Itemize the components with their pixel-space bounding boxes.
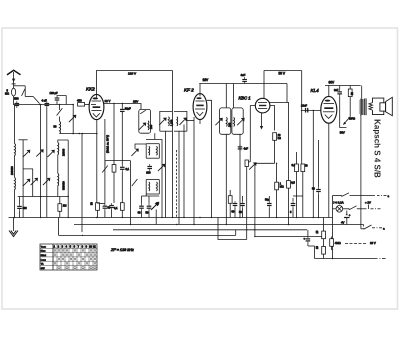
svg-text:50V: 50V bbox=[340, 131, 345, 135]
electrolytic + C bbox=[304, 230, 311, 246]
svg-text:Lang: Lang bbox=[41, 259, 47, 261]
resistor 15 upper bbox=[316, 218, 325, 239]
wire 18V rail drop x=287 bbox=[286, 84, 288, 103]
wire 120V drop x=172.5 bbox=[172, 71, 174, 218]
capacitor 0,1 screen bbox=[109, 203, 118, 217]
wire KF2 anode to 18V rail bbox=[199, 84, 201, 94]
resistor 50 tone bbox=[348, 86, 353, 115]
volume potentiometer bbox=[245, 160, 257, 240]
capacitor 100 osc bbox=[146, 164, 152, 174]
wire y=239 link bbox=[218, 218, 247, 240]
svg-text:0,1: 0,1 bbox=[114, 207, 118, 210]
trimmer capacitor osc 2 bbox=[43, 178, 50, 185]
speaker bbox=[373, 97, 393, 115]
wire IFT2 left leg down bbox=[225, 134, 227, 224]
svg-text:10nF: 10nF bbox=[301, 104, 307, 108]
ground bus 4a y=235.4 bbox=[59, 234, 236, 236]
IF transformer 1 secondary right bbox=[174, 111, 187, 131]
wire grid to KF2 bbox=[187, 120, 194, 122]
power switch box outline bbox=[333, 196, 376, 251]
svg-text:100 pF: 100 pF bbox=[50, 91, 58, 95]
junction node bus bbox=[59, 104, 61, 106]
resistor 1M bleeder bbox=[330, 237, 341, 251]
switch mains a1 bbox=[341, 193, 390, 198]
coil antenna primary lower bbox=[15, 178, 16, 190]
svg-text:2nF: 2nF bbox=[334, 89, 339, 92]
table X marks row3 bbox=[54, 254, 96, 256]
svg-text:J 4 S,2A: J 4 S,2A bbox=[333, 201, 344, 205]
resistor 0,5 bbox=[287, 181, 296, 189]
svg-text:100: 100 bbox=[150, 124, 153, 129]
junction node cathode bbox=[96, 133, 98, 135]
wire KK2 cathode down bbox=[96, 120, 98, 203]
resistor 0,1 top bbox=[292, 152, 299, 218]
tube KK2 bbox=[89, 94, 104, 119]
wire KBC1 diode plate down bbox=[260, 113, 263, 130]
output transformer secondary bbox=[369, 103, 373, 111]
wire between primary coils bbox=[14, 156, 16, 178]
dash-dot chassis segment bbox=[345, 243, 366, 245]
wire y=139 link bbox=[146, 140, 162, 218]
wire KK2 anode to IFT1 bbox=[104, 104, 141, 110]
wire KF2 cathode stub bbox=[199, 120, 201, 124]
switch a2 bbox=[363, 225, 385, 231]
capacitor 100pF bbox=[50, 91, 67, 104]
capacitor KK2 cathode bbox=[103, 204, 111, 218]
wire horizontal link y=196.5 bbox=[18, 196, 69, 198]
wire vertical x=47 from 4nF bbox=[46, 108, 48, 218]
lamp J 4 S,2A bbox=[333, 201, 344, 213]
resistor 50 right bbox=[301, 164, 308, 218]
wire main input bus y=104.5 bbox=[13, 104, 73, 106]
wire trimmer up bbox=[135, 144, 146, 149]
svg-text:KF 2: KF 2 bbox=[184, 88, 194, 93]
capacitor 50 osc 1 bbox=[138, 196, 144, 218]
bottom supply line y=258.5 bbox=[308, 246, 386, 259]
wire coil to ground bus bbox=[14, 190, 16, 218]
wire power internal vertical bbox=[361, 228, 364, 230]
ganged tuning link dashed bbox=[176, 150, 178, 218]
svg-text:kΩ: kΩ bbox=[278, 136, 281, 140]
IF transformer 1 secondary left bbox=[159, 111, 173, 131]
wire bus4a to bus3 riser bbox=[235, 230, 237, 236]
trimmer capacitor osc feedback bbox=[131, 149, 138, 156]
trimmer capacitor ant 2 bbox=[23, 179, 30, 186]
capacitor cluster det 1 bbox=[228, 190, 237, 218]
wire KF2 anode pin right bbox=[207, 100, 212, 217]
battery cell 4V bbox=[341, 211, 351, 225]
svg-text:4V: 4V bbox=[341, 221, 345, 225]
capacitor 10uF bbox=[120, 103, 131, 114]
svg-text:100: 100 bbox=[146, 171, 151, 174]
wire KBC1 top to x288 bbox=[269, 103, 289, 225]
capacitor 2nF tone bbox=[334, 86, 342, 113]
table header digits bbox=[54, 246, 97, 249]
wire KK2 anode to 120V rail bbox=[97, 71, 173, 95]
wire x=130.4 down to bus2 bbox=[129, 161, 131, 225]
svg-text:1,100: 1,100 bbox=[171, 119, 174, 126]
capacitor 50uF AF bbox=[265, 196, 272, 218]
output transformer primary bbox=[360, 86, 363, 229]
ground bus 4 y=236.5 bbox=[255, 236, 322, 238]
switch band selector down bbox=[59, 105, 61, 111]
svg-text:0,5: 0,5 bbox=[291, 181, 295, 185]
wire down x=254.9 bbox=[254, 163, 256, 236]
oscillator coil loop upper bbox=[146, 144, 159, 159]
coil 20000 upper bbox=[58, 143, 59, 155]
junction node bbox=[72, 104, 74, 106]
capacitor 400 AVC bbox=[17, 197, 27, 218]
capacitor 50 det 2 bbox=[239, 196, 245, 218]
svg-text:Taste: Taste bbox=[41, 245, 47, 248]
switch antenna shorting bbox=[14, 86, 34, 97]
coil 100000 antenna primary upper bbox=[15, 144, 16, 156]
svg-text:0,1: 0,1 bbox=[126, 167, 130, 171]
capacitor 500 input bbox=[14, 97, 19, 108]
svg-text:MΩ: MΩ bbox=[280, 185, 284, 189]
trimmer capacitor padder bbox=[31, 178, 38, 185]
resistor 50 KK2 cathode bbox=[91, 202, 100, 218]
IF transformer 1 primary loop bbox=[139, 109, 153, 133]
wire IFT1 bottoms down bbox=[154, 133, 156, 139]
wire coil bottom bbox=[57, 186, 59, 197]
svg-text:500: 500 bbox=[14, 97, 19, 101]
svg-text:300000: 300000 bbox=[62, 181, 66, 190]
switch wave band on bus bbox=[33, 97, 40, 106]
svg-text:KBC 1: KBC 1 bbox=[239, 96, 251, 101]
svg-text:20000: 20000 bbox=[62, 148, 66, 156]
wire osc coils bottom links bbox=[146, 194, 159, 196]
svg-text:12 V: 12 V bbox=[105, 99, 111, 103]
wire IFT1 sec right leg bbox=[178, 131, 180, 224]
capacitor KL4 cathode bbox=[312, 140, 321, 218]
switch position table bbox=[40, 244, 97, 270]
wire top link x68 bbox=[58, 140, 68, 143]
ground bus 3 y=229.8 bbox=[113, 229, 307, 231]
wire heater vertical x=104.9 bbox=[104, 119, 106, 204]
trimmer capacitor osc mid bbox=[158, 164, 165, 171]
wire secondary vertical x=23 bbox=[19, 139, 28, 141]
tube KBC1 bbox=[255, 98, 270, 113]
wire IFT2 feeds up bbox=[225, 84, 227, 108]
oscillator coil loop lower bbox=[146, 180, 159, 195]
junction node bbox=[67, 196, 69, 198]
trimmer capacitor ant 1 bbox=[23, 150, 30, 157]
switch heater + bbox=[343, 206, 361, 210]
wire KK2 cath link bbox=[97, 202, 105, 205]
IF transformer 2 primary loop bbox=[215, 108, 231, 134]
svg-text:4nF: 4nF bbox=[241, 73, 246, 77]
capacitor 4nF on bus bbox=[42, 99, 50, 108]
junction dots on buses bbox=[14, 217, 319, 237]
resistor anode load bbox=[273, 133, 281, 164]
svg-text:4MΩ: 4MΩ bbox=[335, 241, 341, 245]
trimmer capacitor grid bbox=[69, 105, 76, 135]
wire AF coupling y=163.3 bbox=[255, 162, 275, 164]
IF transformer 2 secondary loop bbox=[232, 108, 245, 134]
resistor 5MOhm antenna leak bbox=[5, 88, 16, 96]
capacitor 10nF coupling bbox=[301, 104, 321, 113]
ground bus 2 y=224.5 bbox=[74, 224, 364, 226]
resistor 1M AVC bbox=[58, 197, 67, 218]
wire KF2 pin x=184 bbox=[183, 125, 185, 218]
table X marks row5 bbox=[54, 262, 96, 264]
svg-text:100: 100 bbox=[229, 122, 232, 127]
capacitor 5000 bbox=[290, 198, 295, 218]
wire KBC1 grid left bbox=[250, 106, 255, 162]
switch WAB tone bbox=[340, 112, 356, 128]
wire 50V drop x=301.7 bbox=[301, 71, 303, 165]
trimmer capacitor osc 1 bbox=[47, 150, 54, 157]
svg-text:KK2: KK2 bbox=[86, 87, 95, 92]
capacitor 4nF det bbox=[238, 134, 249, 217]
svg-text:0,1: 0,1 bbox=[292, 164, 296, 167]
svg-text:120 V: 120 V bbox=[128, 72, 137, 76]
net 50 V rail top bbox=[264, 71, 302, 76]
wire bus1-bus4 link x=58.5 bbox=[58, 218, 60, 236]
resistor KF2 cathode bbox=[120, 203, 124, 218]
svg-text:KL4: KL4 bbox=[311, 88, 320, 93]
svg-text:Kapsch S 4 S/B: Kapsch S 4 S/B bbox=[373, 119, 382, 178]
wire x=313.3 vertical bbox=[312, 111, 314, 218]
svg-text:15V: 15V bbox=[133, 100, 138, 104]
svg-text:4nF: 4nF bbox=[244, 146, 249, 150]
svg-text:MΩ: MΩ bbox=[5, 92, 9, 95]
table X marks row4 bbox=[58, 258, 96, 260]
coil 300000 lower bbox=[58, 174, 59, 186]
terminal +2V bbox=[361, 200, 381, 209]
wire cathode return y=133.5 bbox=[60, 133, 97, 135]
net 18V rail bbox=[199, 78, 287, 84]
svg-text:1M: 1M bbox=[63, 204, 67, 208]
capacitor 50 osc 2 bbox=[146, 196, 152, 218]
resistor 1M grid leak bbox=[275, 163, 284, 218]
switch osc section bbox=[102, 166, 108, 173]
wire x=194 down bbox=[193, 117, 195, 225]
svg-text:WAB: WAB bbox=[349, 117, 355, 121]
wire KL4 anode top bbox=[328, 84, 330, 86]
wire KL4 cathode down bbox=[328, 123, 330, 217]
svg-text:450: 450 bbox=[77, 99, 82, 103]
svg-text:400: 400 bbox=[23, 207, 28, 210]
table X marks row2 bbox=[54, 249, 96, 251]
svg-text:ZF = 129 kHz: ZF = 129 kHz bbox=[110, 248, 134, 252]
svg-text:18V: 18V bbox=[203, 78, 210, 82]
svg-text:100000: 100000 bbox=[10, 166, 14, 175]
wire link y=161 bbox=[105, 161, 130, 166]
resistor heater dropper bbox=[112, 165, 116, 173]
wire between coils bbox=[57, 155, 59, 174]
svg-text:4 nF: 4 nF bbox=[42, 99, 48, 103]
resistor 450 grid stopper bbox=[77, 99, 89, 106]
trimmer capacitor osc pad bbox=[151, 203, 158, 210]
svg-text:(Heizf. ca. 60 V): (Heizf. ca. 60 V) bbox=[106, 135, 109, 153]
wire right vertical x=68.2 bbox=[67, 140, 69, 218]
table header labels bbox=[41, 245, 47, 270]
variable capacitor main tuning 1 bbox=[36, 104, 43, 218]
svg-text:50 V: 50 V bbox=[279, 71, 286, 75]
antenna symbol bbox=[7, 70, 21, 104]
trimmer + capacitor osc 3 bbox=[152, 202, 159, 225]
svg-text:10 V: 10 V bbox=[370, 241, 376, 245]
svg-text:Mittel: Mittel bbox=[41, 254, 47, 257]
resistor 15 lower bbox=[316, 239, 325, 259]
svg-text:Kurz: Kurz bbox=[41, 250, 46, 253]
capacitor 0,1 bbox=[120, 112, 130, 203]
coil 50 antenna coupling bbox=[54, 117, 61, 134]
tube KL4 bbox=[321, 85, 337, 123]
tube KF2 bbox=[193, 94, 207, 120]
wire y=196 link bbox=[293, 195, 303, 197]
wire IFT1 sec left leg bbox=[165, 131, 167, 217]
output transformer core bbox=[365, 98, 366, 115]
svg-text:60V: 60V bbox=[329, 80, 336, 84]
ground symbol bbox=[9, 218, 18, 237]
svg-text:+ 2V: + 2V bbox=[365, 200, 371, 204]
wire screen feed down x=114 bbox=[113, 104, 115, 166]
svg-text:10μF: 10μF bbox=[125, 106, 131, 110]
wire KBC1 anode feed bbox=[263, 71, 265, 99]
wire x=114 down bbox=[113, 172, 115, 203]
net 60V rail bbox=[325, 80, 361, 85]
capacitor 4nF screen bbox=[241, 73, 247, 84]
wire left vertical to tuning coils bbox=[14, 105, 16, 144]
wire screen vertical x=82 bbox=[81, 134, 83, 233]
svg-text:50μ: 50μ bbox=[265, 199, 270, 202]
wire link coils x23-x33 bbox=[23, 169, 33, 197]
wire KBC1 anode right bbox=[270, 106, 275, 131]
table O marks row6 bbox=[58, 267, 96, 269]
switch osc band bbox=[132, 179, 138, 186]
ground bus 1 y=217.5 bbox=[9, 217, 333, 219]
